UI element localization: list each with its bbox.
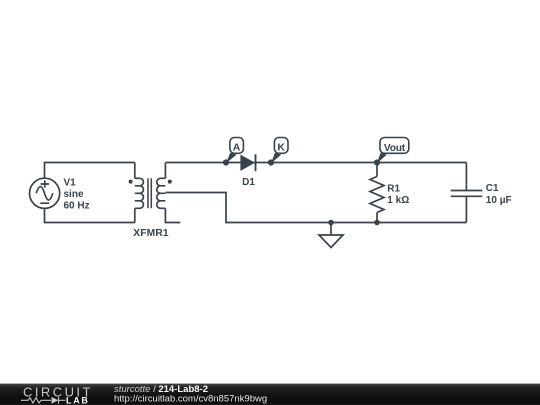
footer bar xyxy=(0,384,540,405)
transformer XFMR1 primary winding xyxy=(135,163,144,223)
svg-text:C1: C1 xyxy=(486,183,499,194)
node Vout leader xyxy=(377,153,387,163)
node K flag xyxy=(274,138,288,154)
node Vout flag xyxy=(380,138,409,154)
svg-text:Vout: Vout xyxy=(384,143,406,154)
svg-text:R1: R1 xyxy=(387,184,400,195)
capacitor C1 xyxy=(451,163,483,223)
svg-text:A: A xyxy=(233,142,241,154)
label C1 10 uF xyxy=(486,183,512,206)
svg-text:60 Hz: 60 Hz xyxy=(64,200,90,211)
wire: top rail from secondary to C1 xyxy=(165,162,466,164)
svg-text:LAB: LAB xyxy=(66,395,90,405)
footer logo resistor-diode line xyxy=(21,397,66,404)
label V1 sine 60 Hz xyxy=(64,178,90,212)
svg-text:XFMR1: XFMR1 xyxy=(133,228,169,239)
svg-text:1 kΩ: 1 kΩ xyxy=(387,195,409,206)
label R1 1 kOhm xyxy=(387,184,409,206)
node A dot xyxy=(223,159,229,165)
transformer phasing dot primary xyxy=(129,180,133,184)
svg-text:http://circuitlab.com/cv8n857n: http://circuitlab.com/cv8n857nk9bwg xyxy=(114,394,267,405)
ground xyxy=(319,220,343,248)
svg-text:V1: V1 xyxy=(64,178,77,189)
svg-text:10 µF: 10 µF xyxy=(486,195,512,206)
transformer XFMR1 secondary winding xyxy=(157,163,181,223)
diode D1 xyxy=(241,154,256,171)
node A leader xyxy=(226,153,237,163)
node A flag xyxy=(230,138,244,154)
node dot R1 bottom xyxy=(374,220,380,226)
svg-text:K: K xyxy=(277,142,285,154)
node Vout dot xyxy=(374,159,380,165)
svg-text:sine: sine xyxy=(64,189,84,200)
svg-text:D1: D1 xyxy=(242,177,255,188)
wire: center tap to bottom rail xyxy=(165,193,466,223)
node K leader xyxy=(271,153,281,163)
node K dot xyxy=(268,159,274,165)
transformer phasing dot secondary xyxy=(168,180,172,184)
resistor R1 xyxy=(370,163,384,223)
voltage source V1 xyxy=(29,178,59,208)
transformer core xyxy=(148,178,151,208)
wire: V1 loop top rail xyxy=(45,163,135,179)
wire: V1 loop bottom rail xyxy=(45,209,135,223)
